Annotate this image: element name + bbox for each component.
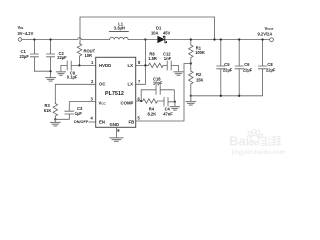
ground COMP network <box>170 102 179 110</box>
wire OC pin 2 <box>55 84 95 103</box>
svg-text:51K: 51K <box>44 108 52 113</box>
svg-text:FB: FB <box>129 119 135 124</box>
svg-text:3: 3 <box>91 97 94 102</box>
svg-text:5: 5 <box>138 116 141 121</box>
svg-text:jingyan.baidu.com: jingyan.baidu.com <box>231 149 286 156</box>
svg-text:GND: GND <box>110 122 120 127</box>
svg-text:9: 9 <box>117 128 120 133</box>
svg-text:1: 1 <box>91 60 94 65</box>
svg-text:HVDD: HVDD <box>99 63 111 68</box>
svg-text:3.3µH: 3.3µH <box>114 26 125 31</box>
ground C9 <box>56 72 65 76</box>
wire input rail with hop over HVDD riser <box>22 38 110 40</box>
capacitor C4 47nF <box>164 98 175 107</box>
node VIN input terminal <box>18 38 22 42</box>
svg-text:45V: 45V <box>163 31 171 36</box>
svg-text:COMP: COMP <box>121 100 134 105</box>
ground R2 <box>186 96 196 105</box>
svg-text:7: 7 <box>138 79 141 84</box>
resistor R4 8.2K <box>141 99 164 103</box>
capacitor C8 <box>259 40 267 69</box>
svg-text:EN: EN <box>99 119 105 124</box>
svg-text:22µF: 22µF <box>266 67 276 72</box>
svg-text:47nF: 47nF <box>163 112 173 117</box>
ground C12 <box>174 72 183 76</box>
svg-text:R2: R2 <box>196 72 202 77</box>
wire HVDD top rail <box>80 17 215 44</box>
svg-text:1.5R: 1.5R <box>148 56 157 61</box>
svg-text:4: 4 <box>91 116 94 121</box>
wire R3 to C3 bottom <box>55 114 69 119</box>
capacitor C5 <box>217 40 225 96</box>
pin numbers <box>91 60 142 133</box>
svg-text:3V~4.2V: 3V~4.2V <box>18 31 34 36</box>
svg-text:22µF: 22µF <box>57 55 67 60</box>
svg-text:VIN: VIN <box>18 25 24 30</box>
resistor R8 1.5R <box>148 63 167 67</box>
resistor ROUT 10R <box>77 44 81 66</box>
op-amp U1 PL7512 IC body <box>96 57 136 127</box>
svg-text:LX: LX <box>128 63 134 68</box>
svg-text:Bai: Bai <box>229 134 249 149</box>
resistor R3 51K <box>53 104 57 120</box>
svg-text:8: 8 <box>138 60 141 65</box>
capacitor C1 <box>30 40 38 72</box>
capacitor C6 <box>235 40 243 96</box>
ground R3 <box>51 119 61 126</box>
inductor L1 3.3uH <box>110 31 129 33</box>
svg-text:LX: LX <box>128 82 134 87</box>
wire HVDD pin feed <box>80 64 96 66</box>
svg-text:1nF: 1nF <box>164 56 172 61</box>
svg-text:OC: OC <box>99 82 105 87</box>
svg-text:10pF: 10pF <box>153 81 163 86</box>
capacitor C12 1nF <box>167 61 178 72</box>
wire EN stub ON/OFF <box>89 121 96 123</box>
svg-text:0.1µF: 0.1µF <box>67 75 78 80</box>
svg-text:10R: 10R <box>85 53 93 58</box>
resistor R1 100K <box>189 40 193 64</box>
svg-text:10A: 10A <box>151 31 159 36</box>
ground IC GND pin 9 <box>115 127 117 137</box>
svg-text:VCC: VCC <box>99 100 107 105</box>
svg-text:22µF: 22µF <box>20 54 30 59</box>
capacitor C18 10pF top branch <box>141 86 174 102</box>
wire FB pin 5 to divider <box>136 64 191 122</box>
svg-text:ON/OFF: ON/OFF <box>74 120 89 124</box>
svg-text:1µF: 1µF <box>75 111 83 116</box>
ground C1/C2 <box>46 78 56 82</box>
svg-text:9.2V/2A: 9.2V/2A <box>258 31 273 36</box>
node HVDD rail junction on VOUT rail <box>213 38 215 40</box>
diode D1 schottky 10A 45V <box>158 36 165 42</box>
wire C1-C2 bottom bus <box>34 71 50 77</box>
resistor R2 15K <box>189 64 193 96</box>
svg-text:8.2K: 8.2K <box>148 112 157 117</box>
svg-text:PL7512: PL7512 <box>105 91 124 97</box>
capacitor C3 1uF <box>65 102 96 114</box>
capacitor C2 <box>47 40 55 72</box>
wire D1 to VOUT rail <box>165 39 269 41</box>
svg-text:100K: 100K <box>195 50 205 55</box>
svg-text:15K: 15K <box>196 78 204 83</box>
wire COMP pin 6 node <box>136 100 142 102</box>
wire LX bus <box>136 40 149 85</box>
capacitor C9 0.1uF <box>61 61 79 72</box>
watermark Baidu Jingyan logo <box>229 129 286 156</box>
svg-text:22µF: 22µF <box>243 67 253 72</box>
svg-text:VOUT: VOUT <box>265 26 274 31</box>
svg-text:22µF: 22µF <box>223 67 233 72</box>
wire L1 to D1 <box>128 39 158 41</box>
wire ground bus under output caps <box>191 69 263 96</box>
svg-text:D1: D1 <box>156 25 162 30</box>
svg-text:2: 2 <box>91 79 94 84</box>
node VOUT output terminal <box>270 38 274 42</box>
